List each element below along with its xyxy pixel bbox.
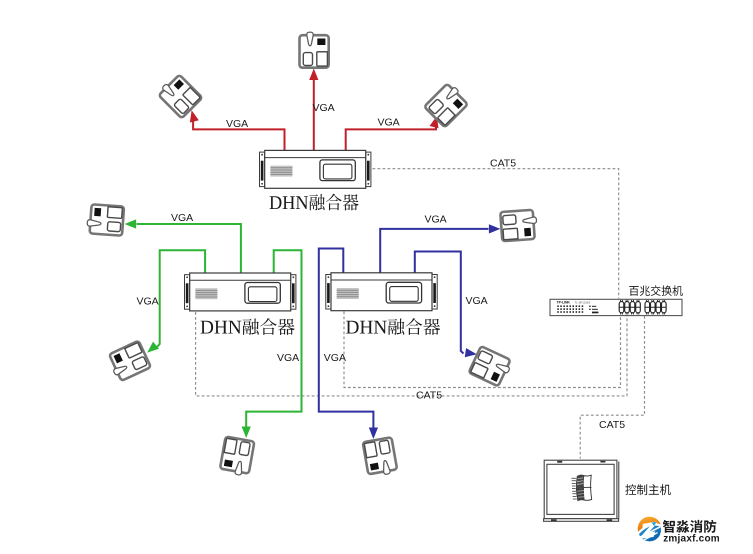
projector P9 (lower right) bbox=[469, 346, 514, 387]
svg-text:VGA: VGA bbox=[324, 352, 346, 364]
label U1 DHN rong-he-qi bbox=[270, 194, 359, 211]
svg-text:CAT5: CAT5 bbox=[416, 390, 442, 402]
svg-text:CAT5: CAT5 bbox=[490, 158, 516, 170]
label host kong-zhi-zhu-ji bbox=[625, 484, 670, 495]
svg-text:VGA: VGA bbox=[226, 118, 248, 130]
svg-text:VGA: VGA bbox=[378, 117, 400, 129]
windows flag sketch on laptop screen bbox=[571, 475, 591, 501]
wire CAT5 dashed: fusion U1 to switch bbox=[373, 169, 619, 299]
label U2 DHN rong-he-qi bbox=[201, 318, 295, 335]
svg-text:VGA: VGA bbox=[137, 296, 159, 308]
control host (laptop) bbox=[544, 460, 619, 521]
switch (TP-LINK 100M) bbox=[550, 299, 682, 315]
svg-text:VGA: VGA bbox=[277, 352, 299, 364]
svg-text:VGA: VGA bbox=[466, 295, 488, 307]
svg-text:CAT5: CAT5 bbox=[599, 419, 625, 431]
wire CAT5 dashed: fusion U2 box to switch bbox=[196, 312, 627, 396]
wire VGA blue B1 bbox=[380, 224, 500, 273]
wire VGA green G3 bbox=[242, 250, 302, 438]
wire VGA blue B2 bbox=[415, 252, 478, 359]
wire VGA green G2 bbox=[144, 250, 205, 356]
wire CAT5 dashed: fusion U3 box to switch bbox=[344, 312, 621, 388]
wire CAT5 dashed: switch to control host bbox=[580, 316, 644, 459]
wire VGA green G1 bbox=[125, 219, 241, 273]
wire VGA blue B3 bbox=[319, 249, 378, 440]
svg-text:zmjaxf.com: zmjaxf.com bbox=[663, 534, 720, 545]
svg-text:VGA: VGA bbox=[313, 102, 335, 114]
logo text zhimiao xiaofang bbox=[663, 520, 717, 533]
projector P3 (top right) bbox=[424, 82, 470, 128]
svg-text:TP-LINK: TP-LINK bbox=[557, 301, 571, 305]
projector P2 (top left) bbox=[157, 73, 203, 119]
projector P4 (mid left) bbox=[87, 204, 125, 236]
wire VGA red R2 bbox=[309, 69, 318, 151]
projector P8 (bottom left) bbox=[219, 437, 254, 477]
label U3 DHN rong-he-qi bbox=[346, 318, 440, 335]
fusion device U2 (DHN) bbox=[185, 273, 296, 311]
projector P1 (top center) bbox=[300, 32, 329, 68]
logo zhimiao xiaofang (bottom right) bbox=[638, 517, 661, 542]
projector P7 (bottom right) bbox=[363, 437, 398, 477]
fusion device U3 (DHN) bbox=[326, 273, 437, 311]
svg-text:TL-SF1016S: TL-SF1016S bbox=[575, 300, 591, 304]
label switch bai-zhao-jiao-huan-ji bbox=[629, 285, 683, 296]
wire VGA red R3 bbox=[346, 115, 442, 150]
projector P6 (lower left) bbox=[106, 341, 151, 382]
projector P5 (mid right) bbox=[500, 210, 538, 242]
wire VGA red R1 bbox=[187, 109, 284, 150]
svg-text:VGA: VGA bbox=[425, 214, 447, 226]
svg-text:VGA: VGA bbox=[171, 212, 193, 224]
fusion device U1 (DHN) bbox=[260, 150, 371, 188]
